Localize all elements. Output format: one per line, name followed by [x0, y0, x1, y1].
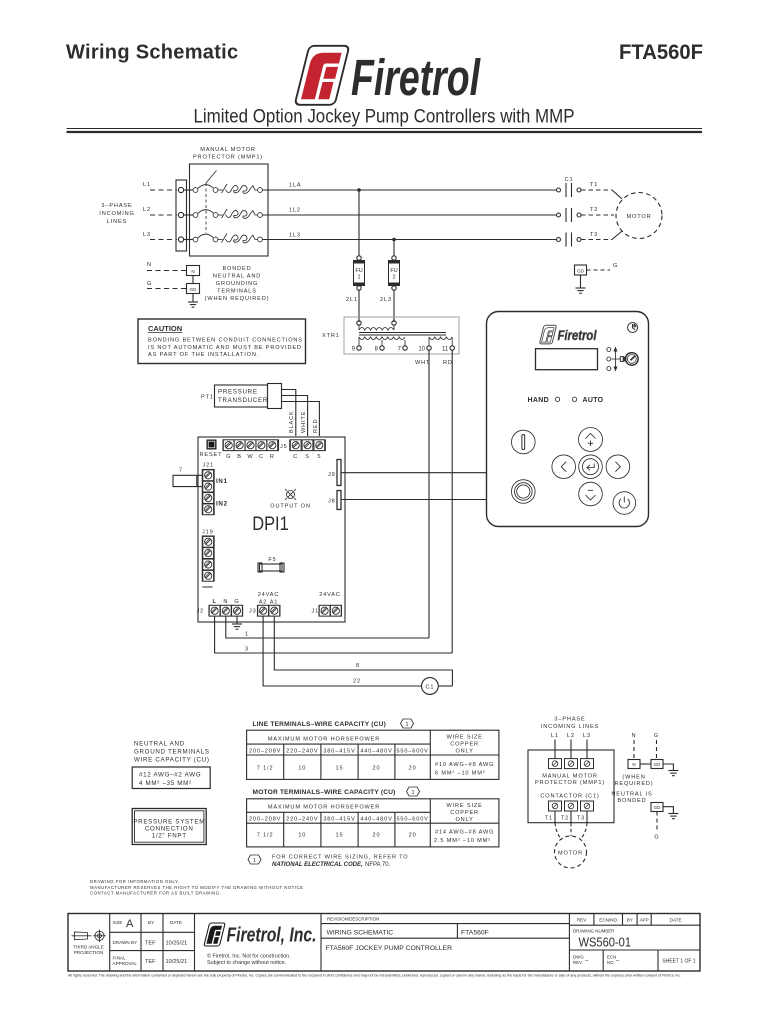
svg-text:PROTECTOR (MMP1): PROTECTOR (MMP1) [193, 155, 263, 161]
svg-text:1LA: 1LA [289, 183, 302, 189]
svg-text:GD: GD [654, 762, 662, 767]
svg-text:L1: L1 [143, 182, 151, 188]
svg-text:FOR CORRECT WIRE SIZING, REFER: FOR CORRECT WIRE SIZING, REFER TO [272, 855, 409, 861]
svg-text:7 1/2: 7 1/2 [257, 833, 274, 839]
svg-text:22: 22 [353, 679, 361, 685]
svg-text:Firetrol, Inc.: Firetrol, Inc. [227, 925, 317, 947]
svg-text:WHITE: WHITE [301, 411, 307, 433]
svg-text:W: W [247, 454, 253, 460]
svg-text:PRESSURE SYSTEM: PRESSURE SYSTEM [133, 819, 205, 826]
svg-text:L2: L2 [567, 733, 575, 739]
svg-text:TEF: TEF [145, 959, 156, 965]
svg-text:20: 20 [373, 833, 381, 839]
svg-text:HAND: HAND [528, 397, 549, 404]
svg-text:GROUNDING: GROUNDING [216, 281, 258, 287]
svg-text:BONDING BETWEEN CONDUIT CONNEC: BONDING BETWEEN CONDUIT CONNECTIONS [148, 338, 303, 344]
svg-text:DRAWING FOR INFORMATION ONLY.: DRAWING FOR INFORMATION ONLY. [90, 879, 180, 884]
svg-text:550–600V: 550–600V [396, 817, 428, 823]
svg-text:GD: GD [577, 269, 585, 274]
svg-text:20: 20 [409, 833, 417, 839]
svg-text:GD: GD [190, 287, 198, 292]
svg-text:1: 1 [253, 858, 256, 864]
svg-text:BY: BY [627, 918, 633, 923]
svg-text:11: 11 [442, 347, 449, 353]
svg-text:1: 1 [245, 632, 249, 638]
svg-text:J8: J8 [328, 499, 336, 505]
svg-text:WHT: WHT [415, 360, 430, 366]
svg-text:L3: L3 [143, 232, 151, 238]
svg-text:NEUTRAL AND: NEUTRAL AND [134, 741, 185, 748]
svg-text:WIRING SCHEMATIC: WIRING SCHEMATIC [327, 930, 394, 937]
svg-text:10/25/21: 10/25/21 [166, 941, 188, 947]
svg-text:J9: J9 [328, 472, 336, 478]
svg-text:380–415V: 380–415V [323, 748, 355, 754]
svg-text:1/2" FNPT: 1/2" FNPT [152, 833, 187, 840]
svg-text:DRAWING NUMBER: DRAWING NUMBER [573, 929, 614, 934]
svg-text:N: N [147, 262, 152, 268]
svg-text:15: 15 [336, 833, 344, 839]
svg-text:LINES: LINES [107, 219, 127, 225]
svg-text:WS560-01: WS560-01 [579, 936, 632, 950]
svg-text:ONLY: ONLY [455, 749, 473, 755]
svg-text:A1: A1 [270, 600, 279, 606]
svg-text:THIRD ANGLE: THIRD ANGLE [73, 945, 104, 950]
svg-text:CAUTION: CAUTION [148, 324, 182, 333]
svg-text:MANUAL MOTOR: MANUAL MOTOR [542, 774, 598, 780]
svg-text:1L2: 1L2 [289, 208, 301, 214]
svg-text:DATE: DATE [670, 918, 682, 923]
svg-text:REV: REV [577, 918, 587, 923]
svg-text:C1: C1 [425, 685, 434, 691]
svg-text:#14 AWG–#8 AWG: #14 AWG–#8 AWG [435, 830, 494, 836]
svg-text:J5: J5 [280, 444, 288, 450]
svg-text:G: G [226, 454, 231, 460]
svg-text:T1: T1 [590, 182, 598, 188]
svg-text:NATIONAL ELECTRICAL CODE,: NATIONAL ELECTRICAL CODE, [272, 862, 363, 868]
svg-text:T2: T2 [561, 816, 569, 822]
svg-text:220–240V: 220–240V [286, 817, 318, 823]
svg-text:FTA560F JOCKEY PUMP CONTROLLER: FTA560F JOCKEY PUMP CONTROLLER [326, 945, 453, 952]
svg-text:C: C [293, 454, 298, 460]
svg-text:#12 AWG–#2 AWG: #12 AWG–#2 AWG [139, 772, 201, 779]
svg-text:WIRE SIZE: WIRE SIZE [446, 803, 482, 809]
svg-text:550–600V: 550–600V [396, 748, 428, 754]
svg-text:8: 8 [356, 663, 360, 669]
svg-text:DPI1: DPI1 [252, 514, 289, 535]
svg-text:INCOMING: INCOMING [99, 211, 134, 217]
svg-text:REVISION/DESCRIPTION: REVISION/DESCRIPTION [327, 917, 379, 922]
svg-text:L3: L3 [583, 733, 591, 739]
svg-text:CONTACTOR (C1): CONTACTOR (C1) [540, 794, 599, 800]
svg-text:3: 3 [245, 647, 249, 653]
svg-text:6 MM² –10 MM²: 6 MM² –10 MM² [435, 771, 486, 777]
svg-text:CONNECTION: CONNECTION [145, 826, 194, 833]
svg-text:CONTACT MANUFACTURER FOR AS BU: CONTACT MANUFACTURER FOR AS BUILT DRAWIN… [90, 890, 221, 895]
svg-text:#10 AWG–#8 AWG: #10 AWG–#8 AWG [435, 762, 494, 768]
svg-text:APPROVAL: APPROVAL [113, 961, 138, 966]
svg-text:NEUTRAL IS: NEUTRAL IS [611, 792, 652, 798]
svg-text:TERMINALS: TERMINALS [217, 289, 257, 295]
svg-text:IS NOT AUTOMATIC AND MUST BE P: IS NOT AUTOMATIC AND MUST BE PROVIDED [148, 345, 302, 351]
svg-text:S: S [305, 454, 310, 460]
svg-text:1: 1 [357, 275, 360, 281]
svg-text:2L3: 2L3 [380, 297, 392, 303]
svg-text:TEF: TEF [145, 941, 156, 947]
svg-text:PT1: PT1 [201, 395, 214, 401]
svg-text:FINAL: FINAL [113, 956, 126, 961]
svg-text:PROTECTOR (MMP1): PROTECTOR (MMP1) [535, 780, 605, 786]
svg-text:FTA560F: FTA560F [619, 41, 703, 64]
svg-text:440–480V: 440–480V [360, 748, 392, 754]
svg-text:J21: J21 [203, 463, 215, 469]
svg-text:J19: J19 [202, 530, 214, 536]
svg-text:24VAC: 24VAC [258, 592, 280, 598]
svg-text:5: 5 [317, 454, 321, 460]
svg-text:T1: T1 [545, 816, 553, 822]
svg-text:NEUTRAL AND: NEUTRAL AND [213, 274, 261, 280]
svg-text:N: N [632, 733, 637, 739]
svg-text:APP: APP [639, 918, 648, 923]
svg-text:FU: FU [355, 268, 362, 274]
svg-text:B: B [237, 454, 242, 460]
svg-text:3–PHASE: 3–PHASE [554, 717, 585, 723]
svg-text:MOTOR TERMINALS–WIRE CAPACITY: MOTOR TERMINALS–WIRE CAPACITY (CU) [253, 789, 396, 796]
svg-text:Firetrol: Firetrol [351, 49, 481, 106]
svg-text:2: 2 [392, 275, 395, 281]
svg-text:(WHEN: (WHEN [622, 775, 645, 781]
svg-text:SHEET 1 OF 1: SHEET 1 OF 1 [662, 959, 695, 965]
svg-text:200–208V: 200–208V [249, 748, 281, 754]
svg-text:200–208V: 200–208V [249, 817, 281, 823]
svg-text:RED: RED [313, 419, 319, 433]
svg-text:220–240V: 220–240V [286, 748, 318, 754]
svg-text:4 MM² –35 MM²: 4 MM² –35 MM² [139, 780, 192, 787]
svg-text:OUTPUT ON: OUTPUT ON [270, 504, 311, 510]
svg-text:MANUAL MOTOR: MANUAL MOTOR [200, 147, 256, 153]
svg-text:Firetrol: Firetrol [558, 328, 597, 343]
svg-text:20: 20 [409, 766, 417, 772]
svg-text:IN1: IN1 [216, 478, 228, 485]
svg-text:DRAWN BY: DRAWN BY [113, 940, 138, 945]
svg-text:REQUIRED): REQUIRED) [614, 781, 653, 787]
svg-text:BONDED: BONDED [617, 798, 646, 804]
svg-text:Limited Option Jockey Pump Con: Limited Option Jockey Pump Controllers w… [194, 107, 575, 128]
svg-text:DATE: DATE [170, 920, 182, 925]
svg-text:LINE TERMINALS–WIRE CAPACITY (: LINE TERMINALS–WIRE CAPACITY (CU) [253, 721, 386, 728]
svg-text:MANUFACTURER RESERVES THE RIGH: MANUFACTURER RESERVES THE RIGHT TO MODIF… [90, 885, 303, 890]
svg-text:G: G [147, 281, 152, 287]
svg-text:IN2: IN2 [216, 501, 228, 508]
svg-text:ONLY: ONLY [455, 817, 473, 823]
svg-text:2L1: 2L1 [346, 297, 358, 303]
svg-text:MAXIMUM MOTOR HORSEPOWER: MAXIMUM MOTOR HORSEPOWER [268, 805, 380, 811]
svg-text:FU: FU [390, 268, 397, 274]
svg-text:WIRE CAPACITY (CU): WIRE CAPACITY (CU) [134, 757, 210, 764]
svg-text:RESET: RESET [200, 452, 223, 458]
svg-text:7 1/2: 7 1/2 [257, 766, 274, 772]
svg-text:10/25/21: 10/25/21 [166, 959, 188, 965]
svg-text:C: C [259, 454, 264, 460]
svg-text:INCOMING LINES: INCOMING LINES [541, 724, 599, 730]
svg-text:L: L [212, 599, 216, 605]
svg-text:(WHEN REQUIRED): (WHEN REQUIRED) [205, 296, 270, 302]
svg-text:7: 7 [179, 468, 183, 474]
svg-text:10: 10 [298, 833, 306, 839]
svg-text:F5: F5 [268, 557, 276, 563]
svg-text:C1: C1 [565, 177, 574, 183]
svg-text:1: 1 [406, 722, 409, 728]
svg-text:N: N [191, 269, 194, 274]
svg-text:BY: BY [148, 920, 154, 925]
svg-text:A: A [126, 918, 134, 930]
svg-text:AUTO: AUTO [583, 397, 604, 404]
svg-text:15: 15 [336, 766, 344, 772]
svg-text:J1: J1 [312, 609, 320, 615]
svg-text:440–480V: 440–480V [360, 817, 392, 823]
svg-text:G: G [234, 599, 239, 605]
svg-text:NO: NO [607, 960, 614, 965]
svg-text:WIRE SIZE: WIRE SIZE [446, 735, 482, 741]
svg-text:MOTOR: MOTOR [558, 851, 583, 857]
svg-text:T2: T2 [590, 207, 598, 213]
svg-text:PROJECTION: PROJECTION [74, 950, 104, 955]
svg-text:GD: GD [654, 805, 662, 810]
svg-text:1L3: 1L3 [289, 233, 301, 239]
svg-text:J3: J3 [249, 609, 257, 615]
svg-text:N: N [632, 762, 635, 767]
svg-text:BLACK: BLACK [289, 410, 295, 433]
svg-text:L1: L1 [551, 733, 559, 739]
svg-text:RD: RD [443, 360, 453, 366]
svg-text:T3: T3 [577, 816, 585, 822]
svg-text:AS PART OF THE INSTALLATION.: AS PART OF THE INSTALLATION. [148, 352, 259, 358]
svg-text:REV: REV [573, 960, 582, 965]
svg-text:A2: A2 [259, 600, 268, 606]
svg-text:G: G [654, 835, 659, 841]
svg-text:COPPER: COPPER [450, 742, 479, 748]
svg-text:GROUND TERMINALS: GROUND TERMINALS [134, 749, 210, 756]
svg-text:10: 10 [298, 766, 306, 772]
svg-text:Wiring Schematic: Wiring Schematic [66, 42, 238, 64]
svg-text:24VAC: 24VAC [319, 592, 341, 598]
svg-text:COPPER: COPPER [450, 810, 479, 816]
svg-text:R: R [270, 454, 275, 460]
svg-text:All rights reserved. The drawi: All rights reserved. The drawing and the… [68, 974, 681, 978]
svg-text:ECN: ECN [607, 955, 616, 960]
svg-text:Subject to change without noti: Subject to change without notice. [207, 960, 286, 966]
svg-text:MAXIMUM MOTOR HORSEPOWER: MAXIMUM MOTOR HORSEPOWER [268, 737, 380, 743]
svg-text:20: 20 [373, 766, 381, 772]
svg-text:G: G [654, 733, 659, 739]
svg-text:1: 1 [412, 790, 415, 796]
svg-text:SIZE: SIZE [113, 920, 123, 925]
svg-text:10: 10 [418, 347, 425, 353]
svg-text:3–PHASE: 3–PHASE [101, 203, 132, 209]
svg-text:380–415V: 380–415V [323, 817, 355, 823]
svg-text:N: N [223, 599, 228, 605]
svg-text:TRANSDUCER: TRANSDUCER [218, 397, 268, 404]
svg-text:XTR1: XTR1 [322, 333, 340, 339]
svg-text:2.5 MM² –10 MM²: 2.5 MM² –10 MM² [434, 838, 491, 844]
svg-text:L2: L2 [143, 207, 151, 213]
svg-text:MOTOR: MOTOR [627, 214, 652, 220]
svg-text:J2: J2 [197, 609, 205, 615]
svg-text:FTA560F: FTA560F [461, 930, 489, 937]
svg-text:ECN/NO: ECN/NO [599, 918, 617, 923]
svg-text:© Firetrol, Inc. Not for cons: © Firetrol, Inc. Not for construction. [207, 953, 291, 960]
svg-text:NFPA 70.: NFPA 70. [365, 862, 391, 868]
svg-text:G: G [613, 263, 618, 269]
svg-text:T3: T3 [590, 232, 598, 238]
svg-text:DWG: DWG [573, 955, 584, 960]
svg-text:PRESSURE: PRESSURE [218, 389, 258, 396]
svg-text:BONDED: BONDED [222, 266, 251, 272]
